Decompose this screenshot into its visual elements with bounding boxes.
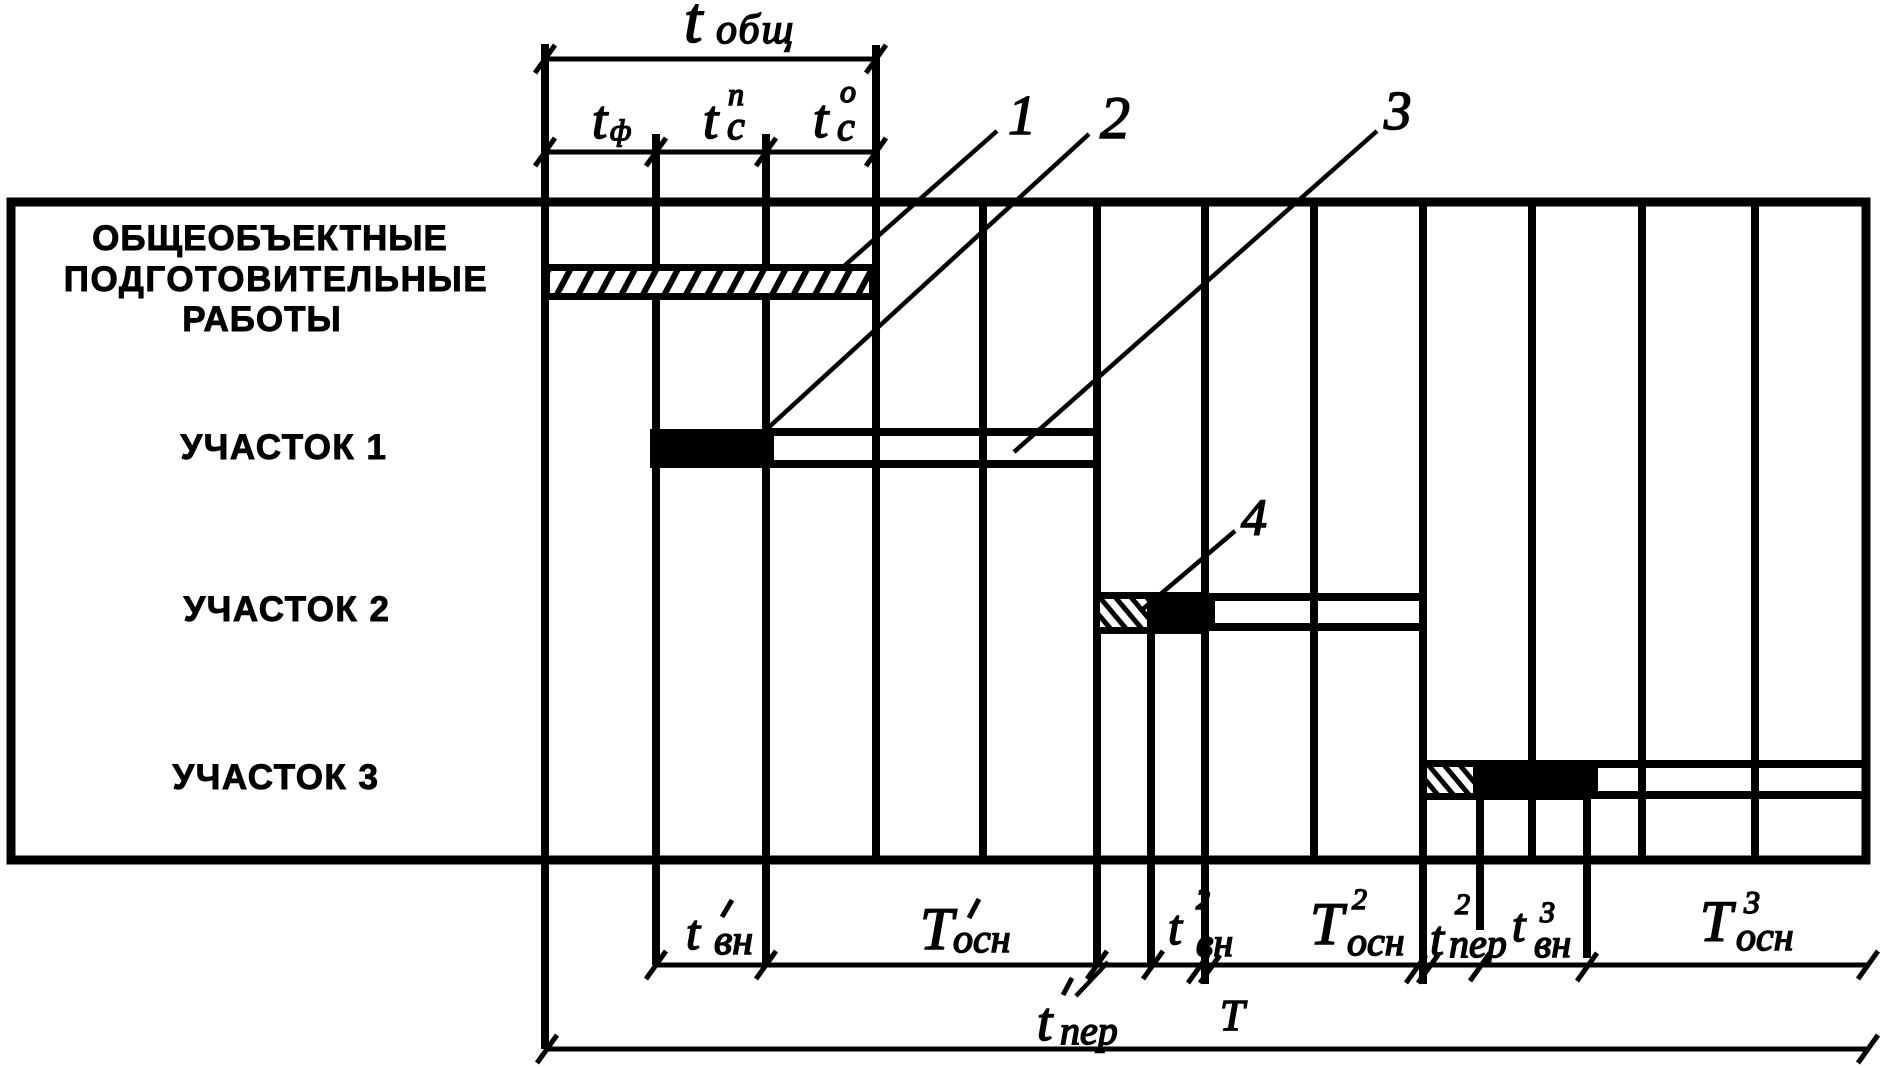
vertical grid line x=1314: [1310, 202, 1318, 858]
tick double: [1406, 955, 1426, 983]
vertical grid line x=1755: [1751, 202, 1759, 858]
svg-text:РАБОТЫ: РАБОТЫ: [182, 300, 342, 339]
svg-text:вн: вн: [1534, 921, 1571, 966]
svg-text:осн: осн: [1736, 914, 1794, 959]
svg-text:t: t: [592, 89, 609, 150]
svg-text:2: 2: [1352, 883, 1367, 916]
svg-text:УЧАСТОК 2: УЧАСТОК 2: [184, 590, 391, 629]
svg-text:T: T: [1700, 889, 1736, 954]
tick: [1087, 951, 1107, 979]
svg-text:t: t: [813, 88, 830, 149]
svg-text:с: с: [727, 103, 745, 148]
black bar section 2: [1150, 592, 1207, 634]
svg-text:общ: общ: [716, 7, 795, 53]
vertical grid line x=1642: [1638, 202, 1646, 858]
vertical grid line x=1532: [1528, 202, 1536, 858]
tick: [866, 45, 886, 73]
svg-text:с: с: [837, 104, 855, 149]
svg-text:осн: осн: [953, 916, 1011, 961]
tick: [1577, 953, 1597, 981]
svg-text:t: t: [1168, 899, 1183, 955]
vertical grid line x=876: [872, 45, 880, 858]
hatch box section 3: [1424, 764, 1477, 797]
black bar section 3: [1477, 760, 1590, 800]
vertical grid line x=983: [979, 202, 987, 858]
bottom dimension line 1: [656, 963, 1868, 968]
hatch box section 2: [1097, 596, 1151, 631]
svg-text:ПОДГОТОВИТЕЛЬНЫЕ: ПОДГОТОВИТЕЛЬНЫЕ: [64, 260, 489, 299]
svg-text:t: t: [1037, 991, 1054, 1052]
tick: [535, 45, 555, 73]
svg-text:пер: пер: [1449, 921, 1507, 966]
callout leader 1: [843, 131, 997, 267]
tick: [535, 138, 555, 166]
vertical grid line x=766: [762, 134, 770, 965]
svg-text:t: t: [703, 89, 720, 150]
svg-text:УЧАСТОК 1: УЧАСТОК 1: [181, 428, 388, 467]
dimension line t_f t_s: [544, 150, 876, 155]
svg-text:T: T: [920, 896, 957, 962]
vertical grid line x=1205: [1201, 202, 1209, 984]
svg-text:t: t: [1512, 899, 1527, 952]
svg-text:осн: осн: [1347, 919, 1405, 964]
tick: [1858, 1035, 1878, 1063]
vertical grid line x=1587 below bar: [1583, 797, 1591, 958]
tick: [537, 1035, 557, 1063]
hatched bar preparatory works: [547, 268, 873, 297]
vertical grid line x=1097: [1093, 202, 1101, 965]
tick: [1470, 953, 1490, 981]
svg-text:вн: вн: [714, 918, 753, 964]
tick: [646, 951, 666, 979]
svg-text:УЧАСТОК 3: УЧАСТОК 3: [173, 758, 380, 797]
dimension line t_obsh: [544, 57, 876, 62]
svg-text:ОБЩЕОБЪЕКТНЫЕ: ОБЩЕОБЪЕКТНЫЕ: [92, 219, 448, 258]
tick: [756, 138, 776, 166]
svg-text:T: T: [1220, 991, 1248, 1040]
svg-text:ф: ф: [610, 114, 631, 147]
tick double: [1188, 955, 1208, 983]
t_per leader: [1076, 962, 1108, 996]
svg-text:t: t: [1430, 910, 1445, 966]
tick: [646, 138, 666, 166]
tick: [1143, 951, 1163, 979]
tick: [1858, 951, 1878, 979]
vertical grid line x=1151 below bar: [1147, 630, 1155, 965]
vertical grid line x=1423: [1419, 202, 1427, 984]
open bar section 2: [1211, 597, 1423, 627]
svg-text:2: 2: [1455, 888, 1470, 921]
svg-text:вн: вн: [1196, 920, 1233, 965]
callout leader 3: [1014, 131, 1377, 452]
outer box: [11, 202, 1866, 860]
vertical grid line x=545: [541, 44, 549, 1049]
svg-text:t: t: [684, 0, 704, 57]
vertical grid line x=1480 below bar: [1476, 797, 1484, 930]
svg-text:пер: пер: [1060, 1008, 1118, 1053]
bottom dimension line T: [545, 1047, 1868, 1052]
svg-text:T: T: [1310, 891, 1347, 957]
callout leader 2: [768, 134, 1089, 428]
svg-text:1: 1: [1008, 85, 1036, 147]
svg-text:2: 2: [1196, 885, 1210, 916]
tick: [756, 951, 776, 979]
svg-text:3: 3: [1383, 80, 1412, 141]
svg-text:t: t: [686, 904, 701, 960]
open bar section 1: [770, 432, 1097, 464]
tick: [866, 138, 886, 166]
black bar section 1: [650, 429, 766, 468]
open bar section 3: [1594, 764, 1866, 795]
svg-text:4: 4: [1241, 490, 1267, 547]
svg-text:2: 2: [1100, 85, 1130, 151]
vertical grid line x=656: [652, 134, 660, 965]
callout leader 4: [1143, 531, 1235, 609]
